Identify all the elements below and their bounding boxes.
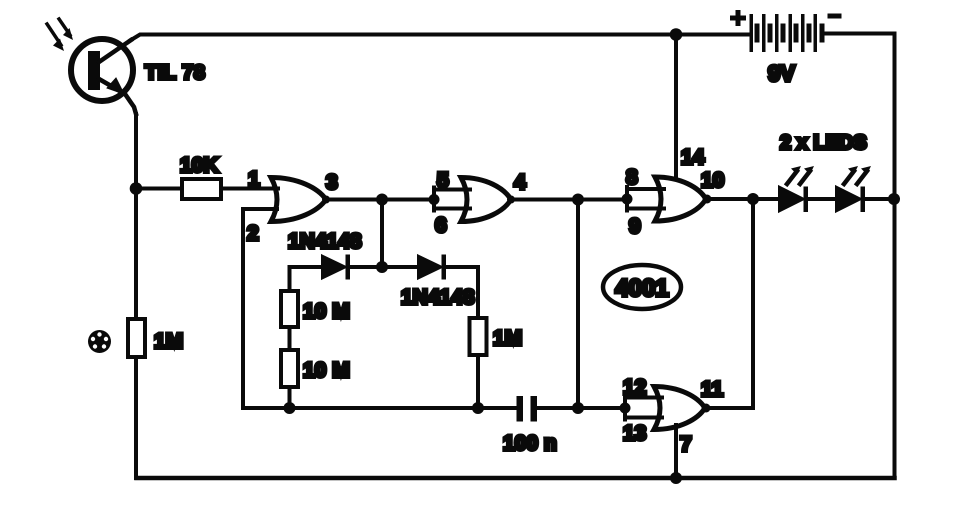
wire node C down to node F <box>576 200 580 409</box>
node J pin7/bottom rail <box>670 472 682 484</box>
node gate2 input <box>429 194 440 205</box>
wire R2 to R3 <box>288 327 292 350</box>
node G between diodes <box>376 261 388 273</box>
wire D2 to R4 <box>446 267 478 318</box>
wire bottom row 408 <box>243 406 517 410</box>
resistor R3 10M lower <box>281 350 298 387</box>
svg-text:10 M: 10 M <box>303 359 350 382</box>
wire R1 to gate1 pin1 <box>221 187 278 191</box>
wire 1M left vertical upper <box>134 189 138 320</box>
light arrow 2 into Q1 <box>59 19 70 35</box>
gate output tip dots <box>322 196 330 204</box>
svg-text:TIL 78: TIL 78 <box>145 62 205 84</box>
wire top rail <box>131 35 751 41</box>
wire gate4 output to node D riser <box>705 406 753 410</box>
decorative sun symbol <box>88 330 111 353</box>
svg-text:9V: 9V <box>768 61 795 86</box>
wire R3 to node H <box>288 387 292 408</box>
node A emitter/10K/1M junction <box>130 182 143 195</box>
svg-text:11: 11 <box>701 378 724 401</box>
wire battery to right rail and right rail down <box>825 34 895 479</box>
svg-text:10: 10 <box>701 169 724 192</box>
node E right rail LED junction <box>888 193 900 205</box>
LED D4 light arrows <box>844 171 854 184</box>
wire LED D4 to right rail <box>865 197 895 201</box>
svg-text:12: 12 <box>623 376 646 399</box>
svg-text:1: 1 <box>248 168 260 191</box>
light arrow 1 into Q1 <box>47 24 61 45</box>
nor gate U1c (pins 8,9 out 10) <box>655 177 706 221</box>
wire emitter down to node <box>134 114 138 189</box>
svg-text:3: 3 <box>326 171 338 194</box>
wire node B down to diode junction <box>380 200 384 268</box>
wire LED D3 to LED D4 <box>808 197 836 201</box>
nor gate U1d (pins 12,13 out 11) <box>654 387 705 430</box>
battery plus label <box>733 13 744 24</box>
svg-text:4001: 4001 <box>615 275 668 302</box>
wire pin2 stub <box>243 207 277 211</box>
svg-text:1N4148: 1N4148 <box>288 230 362 253</box>
wire diode row left <box>290 267 323 291</box>
svg-text:2: 2 <box>247 222 259 245</box>
svg-text:100 n: 100 n <box>503 432 557 455</box>
svg-text:5: 5 <box>437 169 449 192</box>
capacitor C1 100n <box>517 396 538 422</box>
wire pin7 to bottom rail <box>674 425 678 478</box>
node H <box>284 402 296 414</box>
node B output gate1 <box>376 194 388 206</box>
wire cap to gate4 <box>537 406 625 410</box>
wire gate2 output to gate3 <box>511 198 627 202</box>
diode D1 1N4148 <box>322 255 350 280</box>
node D gate3 out / gate4 out junction <box>747 193 759 205</box>
nor gate U1b (pins 5,6 out 4) <box>461 178 511 222</box>
wire D1 to node G <box>350 265 418 269</box>
gate4 input tie bar pins 12,13 <box>625 396 662 420</box>
wire node A to R1 <box>136 187 182 191</box>
wire gate1 output to gate2 <box>326 198 434 202</box>
node gate4 input <box>620 403 631 414</box>
resistor R4 1M <box>470 318 487 355</box>
gate2 input tie bar pins 5,6 <box>434 188 470 211</box>
svg-text:2 x LEDS: 2 x LEDS <box>780 132 867 154</box>
svg-text:4: 4 <box>514 171 526 194</box>
svg-text:1M: 1M <box>154 330 183 353</box>
svg-text:13: 13 <box>623 422 646 445</box>
LED D4 <box>836 187 865 213</box>
svg-text:14: 14 <box>681 146 705 169</box>
wire pin14 from top rail <box>674 35 678 180</box>
battery minus label <box>830 14 839 19</box>
node gate3 input <box>622 194 633 205</box>
LED D3 light arrows <box>787 171 797 184</box>
resistor R2 10M upper <box>281 291 298 327</box>
svg-text:1N4148: 1N4148 <box>401 286 475 309</box>
resistor R5 1M <box>128 319 145 357</box>
resistor R1 10K <box>182 179 221 199</box>
wire R4 to node I <box>476 355 480 408</box>
battery B1 9V <box>750 14 825 52</box>
svg-text:10 M: 10 M <box>303 300 350 323</box>
wire pin2 feedback vertical <box>241 209 245 408</box>
node top rail / pin14 junction <box>670 28 683 41</box>
wire node D down to gate4 output <box>751 199 755 408</box>
svg-text:1M: 1M <box>493 327 522 350</box>
gate3 input tie bar pins 8,9 <box>627 187 664 211</box>
phototransistor Q1 TIL78 <box>71 39 136 114</box>
4001 ellipse label <box>603 265 681 309</box>
node F cap/gate4 input <box>572 402 584 414</box>
diode D2 1N4148 <box>418 255 446 280</box>
node C after gate2 <box>572 194 584 206</box>
LED D3 <box>779 187 808 213</box>
wire bottom rail <box>137 476 895 481</box>
svg-text:7: 7 <box>680 433 692 456</box>
wire gate3 output to LEDs <box>706 197 779 201</box>
svg-text:10K: 10K <box>180 154 219 177</box>
node I <box>472 402 484 414</box>
svg-text:8: 8 <box>626 166 638 189</box>
svg-text:9: 9 <box>629 215 641 238</box>
svg-text:6: 6 <box>435 214 447 237</box>
nor gate U1a (pins 1,2 out 3) <box>271 178 326 222</box>
wire 1M left vertical lower <box>134 357 138 478</box>
